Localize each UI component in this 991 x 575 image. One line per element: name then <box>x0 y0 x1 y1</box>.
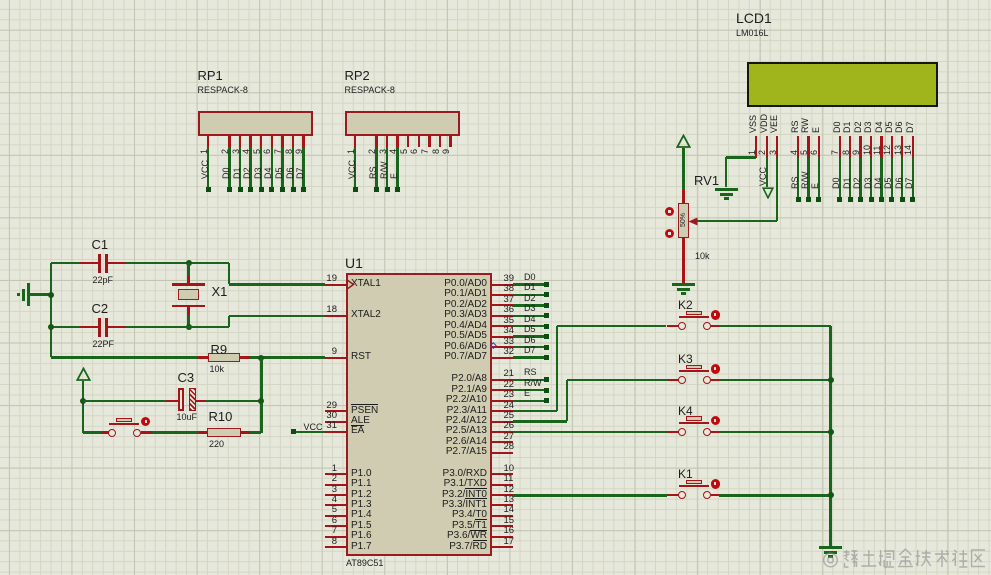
C3 right lead <box>196 400 206 402</box>
C2 left lead <box>80 326 98 328</box>
RP2 pin 9 stub <box>449 136 451 147</box>
R9 right lead <box>240 356 250 358</box>
wire RP1 pin 7 to terminal <box>281 147 283 187</box>
RP1 pin 2 stub <box>228 136 230 147</box>
wire left rail to C1 <box>51 262 80 264</box>
terminal E (U1 side) <box>544 398 549 403</box>
RP1 pin 6 stub <box>271 136 273 147</box>
LCD1 pin name D4 <box>874 121 884 133</box>
LCD1 pin number 4 <box>789 150 799 155</box>
junction left rail / ground <box>48 292 54 298</box>
net label D0 <box>221 167 231 179</box>
RV1 decrease button <box>665 229 674 238</box>
U1 pin 9 (RST) <box>325 357 346 359</box>
wire R9 to RST pin <box>250 356 325 358</box>
R10 left lead <box>198 431 207 433</box>
terminal D0 (RP1 pin 2) <box>227 187 232 192</box>
wire LCD1 D7 to terminal <box>912 158 914 198</box>
LCD1 pin 2 stub <box>766 136 768 158</box>
LCD1 pin 1 stub <box>755 136 757 158</box>
K4 red actuator dot <box>711 416 721 426</box>
junction VCC rail / C3 <box>80 398 86 404</box>
wire X1 bottom to junction <box>187 315 189 327</box>
U1 pin 29 (PSEN) <box>325 410 346 412</box>
terminal D6 (U1 side) <box>544 345 549 350</box>
LCD1 pin number 6 <box>809 150 819 155</box>
terminal D5 (U1 side) <box>544 334 549 339</box>
RV1 top pin stub <box>682 190 684 203</box>
wire K3 right to trunk <box>719 379 831 381</box>
wire P2.1 to terminal R/W <box>513 389 544 391</box>
net label D4 <box>263 167 273 179</box>
wire P2.3 out <box>513 410 557 412</box>
U1 pin 35 (P0.4) <box>492 325 513 327</box>
net label D2 (U1 side) <box>524 294 536 303</box>
label K3 <box>678 353 693 365</box>
terminal D7 (U1 side) <box>544 355 549 360</box>
RP1 pin number 3 <box>231 149 241 154</box>
LCD1 pin number 5 <box>799 150 809 155</box>
wire R10 to reset rail <box>250 431 261 433</box>
U1 pin 4 (P1.3) <box>325 504 346 506</box>
LCD1 pin 12 stub <box>891 136 893 158</box>
LCD1 pin name D0 <box>832 121 842 133</box>
X1 top lead <box>187 276 189 284</box>
wire RP2 pin 1 to terminal <box>354 147 356 187</box>
wire P2.0 to terminal RS <box>513 379 544 381</box>
net label D1 <box>232 167 242 179</box>
wire C2 to XTAL2 corner <box>126 326 229 328</box>
LCD1 pin name D1 <box>842 121 852 133</box>
wire to left ground <box>30 293 51 295</box>
U1 pin 19 (XTAL1) <box>325 284 346 286</box>
junction C1/X1 top <box>186 260 192 266</box>
terminal VCC (EA) <box>291 429 296 434</box>
U1 pin 26 (P2.5) <box>492 431 513 433</box>
wire P0.1 to terminal D1 <box>513 294 544 296</box>
value 22PF (C2) <box>93 340 115 349</box>
LCD1 pin 5 stub <box>807 136 809 158</box>
LCD1 pin number 14 <box>903 145 913 155</box>
LCD1 pin name D3 <box>863 121 873 133</box>
U1 pin 14 (P3.4) <box>492 515 513 517</box>
RP2 pin number 1 <box>346 149 356 154</box>
LCD1 pin 10 stub <box>870 136 872 158</box>
RP2 pin 4 stub <box>396 136 398 147</box>
value RESPACK-8 (RP2) <box>345 86 395 95</box>
wire RP1 pin 4 to terminal <box>249 147 251 187</box>
label X1 <box>212 285 228 298</box>
wire VSS to ground <box>726 156 756 158</box>
net label RS (LCD1) <box>790 176 800 189</box>
wire corner down to XTAL1 <box>228 263 230 284</box>
LCD1 pin number 8 <box>841 150 851 155</box>
terminal R/W (LCD1) <box>806 197 811 202</box>
wire P0.3 to terminal D3 <box>513 315 544 317</box>
RP1 pin 4 stub <box>249 136 251 147</box>
U1 pin 23 (P2.2) <box>492 400 513 402</box>
label RP1 <box>198 69 223 82</box>
wire VCC rail to C3 <box>83 400 166 402</box>
net label D7 (U1 side) <box>524 346 536 355</box>
C1 left lead <box>80 262 98 264</box>
value 10k (R9) <box>210 365 225 374</box>
RP2 pin number 9 <box>441 149 451 154</box>
C2 right lead <box>108 326 126 328</box>
RP2 pin 6 stub <box>418 136 420 147</box>
microcontroller U1 AT89C51 <box>346 273 492 556</box>
net label VCC (RP2) <box>347 160 357 179</box>
U1 pin 39 (P0.0) <box>492 284 513 286</box>
wire to XTAL1 pin <box>229 283 325 285</box>
wire VCC arrow down to RV1 <box>682 148 684 191</box>
LCD1 pin number 11 <box>872 146 882 155</box>
U1 pin 1 (P1.0) <box>325 473 346 475</box>
RP2 pin 1 stub <box>354 136 356 147</box>
wire P0.6 to terminal D6 <box>513 346 544 348</box>
wire to K2 left <box>557 325 666 327</box>
U1 pin 12 (P3.2) <box>492 494 513 496</box>
U1 pin 36 (P0.3) <box>492 315 513 317</box>
LCD1 screen <box>747 62 938 108</box>
LCD1 pin name RW <box>800 118 810 133</box>
LCD1 pin name VDD <box>759 113 769 132</box>
R10 right lead <box>241 431 251 433</box>
net label R/W (LCD1) <box>800 172 810 190</box>
U1 pin 5 (P1.4) <box>325 515 346 517</box>
label R10 <box>209 410 233 423</box>
LCD1 pin name D2 <box>853 121 863 133</box>
value 10uF (C3) <box>177 413 198 422</box>
wire VCC rail to button <box>83 431 101 433</box>
terminal D3 (LCD1) <box>869 197 874 202</box>
C1 right lead <box>108 262 126 264</box>
RP1 pin number 9 <box>294 149 304 154</box>
net label D7 (LCD1) <box>904 177 914 189</box>
LCD1 pin 4 stub <box>797 136 799 158</box>
RP1 pin 8 stub <box>292 136 294 147</box>
LCD1 pin number 12 <box>882 145 892 155</box>
wire RP2 pin 4 to terminal <box>396 147 398 187</box>
wire C1 to XTAL1 corner <box>126 262 229 264</box>
terminal D1 (U1 side) <box>544 292 549 297</box>
wire VEE to RV1 wiper <box>697 220 777 222</box>
RV1 wiper percent 50% <box>680 213 688 227</box>
wire LCD1 E to terminal <box>818 158 820 198</box>
net label E (U1 side) <box>524 389 530 398</box>
label K4 <box>678 405 693 417</box>
U1 pin 17 (P3.7) <box>492 546 513 548</box>
ground (RV1 bottom) <box>672 283 695 286</box>
terminal D5 (RP1 pin 7) <box>280 187 285 192</box>
wire RP1 pin 8 to terminal <box>292 147 294 187</box>
net label D1 (LCD1) <box>842 177 852 189</box>
resistor pack RP1 <box>198 111 313 136</box>
LCD1 pin 8 stub <box>849 136 851 158</box>
wire button to R10 <box>152 431 198 433</box>
RP1 pin 5 stub <box>260 136 262 147</box>
RP1 pin 9 stub <box>302 136 304 147</box>
wire P2.2 to terminal E <box>513 400 544 402</box>
junction trunk/K1 <box>828 492 834 498</box>
wire to XTAL2 pin <box>229 315 325 317</box>
terminal D7 (RP1 pin 9) <box>301 187 306 192</box>
wire down to ground (VSS) <box>725 157 727 187</box>
U1 pin 10 (P3.0) <box>492 473 513 475</box>
wire LCD1 D2 to terminal <box>859 158 861 198</box>
wire K1 right to trunk <box>719 494 831 496</box>
net label D0 (U1 side) <box>524 273 536 282</box>
RP2 pin 8 stub <box>439 136 441 147</box>
U1 pin 22 (P2.1) <box>492 389 513 391</box>
RP1 pin number 8 <box>284 149 294 154</box>
net label E (LCD1) <box>810 183 820 189</box>
net label R/W (RP2) <box>379 162 389 180</box>
terminal D4 (U1 side) <box>544 324 549 329</box>
wire P2.4 out <box>513 420 567 422</box>
value 10k (RV1) <box>695 252 710 261</box>
value 22pF (C1) <box>93 276 114 285</box>
value 220 (R10) <box>209 440 224 449</box>
net label D2 <box>242 167 252 179</box>
wire P0.5 to terminal D5 <box>513 335 544 337</box>
LCD1 pin number 1 <box>747 150 757 155</box>
RP2 pin 5 stub <box>407 136 409 147</box>
label C3 <box>178 371 195 384</box>
U1 pin 8 (P1.7) <box>325 546 346 548</box>
LCD1 pin 7 stub <box>839 136 841 158</box>
net label VCC <box>200 160 210 179</box>
label LCD1 <box>736 11 772 25</box>
LCD1 pin number 3 <box>768 150 778 155</box>
net label E (RP2) <box>389 173 399 179</box>
RV1 bottom pin wire <box>682 238 684 283</box>
junction left rail / C2 <box>48 324 54 330</box>
RP2 pin number 7 <box>420 149 430 154</box>
terminal D2 (RP1 pin 4) <box>248 187 253 192</box>
watermark @ xitu juejin tech community <box>823 548 987 570</box>
label K2 <box>678 299 693 311</box>
wire VCC terminal to EA <box>296 431 326 433</box>
wire LCD1 RS to terminal <box>797 158 799 198</box>
label VCC (VDD arrow) <box>758 167 768 186</box>
RV1 wiper arrow <box>688 217 698 226</box>
U1 pin 38 (P0.1) <box>492 294 513 296</box>
LCD1 pin number 13 <box>893 145 903 155</box>
terminal RS (LCD1) <box>796 197 801 202</box>
wire left rail vertical <box>50 263 52 357</box>
U1 pin 21 (P2.0) <box>492 379 513 381</box>
net label RS (U1 side) <box>524 368 537 377</box>
U1 pin 11 (P3.1) <box>492 484 513 486</box>
net label D2 (LCD1) <box>852 177 862 189</box>
RP2 pin number 5 <box>399 149 409 154</box>
RP2 pin number 6 <box>409 149 419 154</box>
wire left rail to C2 <box>51 326 80 328</box>
U1 pin 15 (P3.5) <box>492 525 513 527</box>
LCD1 pin name VSS <box>748 114 758 132</box>
wire junction to X1 top <box>187 263 189 276</box>
junction trunk/K3 <box>828 377 834 383</box>
U1 pin 18 (XTAL2) <box>325 315 346 317</box>
LCD1 pin name VEE <box>769 114 779 132</box>
net label D6 (U1 side) <box>524 336 536 345</box>
U1 XTAL1 clock chevron <box>346 279 355 290</box>
RP2 pin number 2 <box>367 149 377 154</box>
K1 red actuator dot <box>711 479 721 489</box>
U1 pin 27 (P2.6) <box>492 441 513 443</box>
terminal D0 (LCD1) <box>837 197 842 202</box>
LCD1 pin 3 stub <box>776 136 778 158</box>
terminal D1 (RP1 pin 3) <box>238 187 243 192</box>
wire P2.5 to K4 <box>513 431 667 433</box>
wire P0.4 to terminal D4 <box>513 325 544 327</box>
net label D5 <box>274 167 284 179</box>
U1 pin 28 (P2.7) <box>492 452 513 454</box>
terminal RS (U1 side) <box>544 377 549 382</box>
terminal VCC (RP1 pin 1) <box>206 187 211 192</box>
wire vertical P2.3 to K2 row <box>556 326 558 411</box>
net label R/W (U1 side) <box>524 379 542 388</box>
net label D4 (U1 side) <box>524 315 536 324</box>
LCD1 pin name E <box>811 126 821 132</box>
wire P0.2 to terminal D2 <box>513 304 544 306</box>
U1 pin 7 (P1.6) <box>325 536 346 538</box>
label R9 <box>211 343 228 356</box>
net label D4 (LCD1) <box>873 177 883 189</box>
U1 pin 3 (P1.2) <box>325 494 346 496</box>
U1 pin 31 (EA) <box>325 431 346 433</box>
wire LCD1 D0 to terminal <box>839 158 841 198</box>
wire RP1 pin 2 to terminal <box>228 147 230 187</box>
K3 red actuator dot <box>711 364 721 374</box>
net label D7 <box>295 167 305 179</box>
wire corner up to XTAL2 <box>228 316 230 327</box>
wire keys common trunk <box>829 326 831 546</box>
wire RP2 pin 3 to terminal <box>386 147 388 187</box>
wire right reset rail vertical <box>260 358 262 433</box>
RP1 pin number 5 <box>252 149 262 154</box>
terminal D4 (RP1 pin 6) <box>269 187 274 192</box>
power VCC (up arrow above RV1) <box>676 134 691 149</box>
terminal D0 (U1 side) <box>544 282 549 287</box>
net label D5 (LCD1) <box>883 177 893 189</box>
junction C2/X1 bottom <box>186 324 192 330</box>
wire RP1 pin 6 to terminal <box>271 147 273 187</box>
wire vertical P2.4 to K3 row <box>566 380 568 421</box>
wire VCC arrow down rail <box>82 381 84 433</box>
value RESPACK-8 <box>198 86 248 95</box>
U1 pin 37 (P0.2) <box>492 304 513 306</box>
LCD1 pin 6 stub <box>818 136 820 158</box>
wire K4 right to trunk <box>719 431 831 433</box>
label RV1 <box>694 174 719 187</box>
button red actuator dot <box>141 417 151 427</box>
terminal D6 (RP1 pin 8) <box>291 187 296 192</box>
K2 red actuator dot <box>711 310 721 320</box>
RP1 pin 1 stub <box>207 136 209 147</box>
wire RP1 pin 5 to terminal <box>260 147 262 187</box>
net label D3 (U1 side) <box>524 304 536 313</box>
label K1 <box>678 468 693 480</box>
LCD1 pin number 9 <box>851 150 861 155</box>
wire P3.2 to K1 <box>513 494 667 496</box>
ground (keys trunk) <box>819 546 842 549</box>
net label D6 (LCD1) <box>894 177 904 189</box>
R9 left lead <box>198 356 208 358</box>
U1 pin 6 (P1.5) <box>325 525 346 527</box>
net label D1 (U1 side) <box>524 283 536 292</box>
RP2 pin 7 stub <box>428 136 430 147</box>
label RP2 <box>345 69 370 82</box>
RP1 pin number 4 <box>241 149 251 154</box>
RP2 pin 3 stub <box>386 136 388 147</box>
net label D3 <box>253 167 263 179</box>
wire LCD1 D4 to terminal <box>880 158 882 198</box>
X1 bottom lead <box>187 306 189 315</box>
net label D3 (LCD1) <box>863 177 873 189</box>
wire C3 to reset rail <box>206 400 261 402</box>
terminal D5 (LCD1) <box>889 197 894 202</box>
U1 pin 13 (P3.3) <box>492 504 513 506</box>
wire VEE down <box>776 158 778 222</box>
terminal D2 (LCD1) <box>858 197 863 202</box>
C3 left lead <box>166 400 178 402</box>
junction R9/RST/C3 rail <box>258 355 264 361</box>
net label VCC (EA) <box>304 423 323 432</box>
net label D0 (LCD1) <box>831 177 841 189</box>
terminal D2 (U1 side) <box>544 303 549 308</box>
power VCC (up arrow, reset circuit) <box>76 367 91 382</box>
resistor pack RP2 <box>345 111 460 136</box>
net label D6 <box>285 167 295 179</box>
junction trunk/K4 <box>828 429 834 435</box>
RP1 pin number 1 <box>199 149 209 154</box>
terminal D4 (LCD1) <box>879 197 884 202</box>
wire VDD to VCC arrow <box>766 158 768 188</box>
LCD1 pin name D6 <box>894 121 904 133</box>
RV1 increase button <box>665 207 674 216</box>
terminal R/W (U1 side) <box>544 388 549 393</box>
button left lead <box>101 431 109 433</box>
label C1 <box>92 238 109 251</box>
LCD1 pin number 7 <box>830 150 840 155</box>
LCD1 pin 9 stub <box>859 136 861 158</box>
wire RP2 pin 2 to terminal <box>375 147 377 187</box>
terminal D6 (LCD1) <box>900 197 905 202</box>
ground (VSS) <box>715 188 738 191</box>
LCD1 pin number 2 <box>757 150 767 155</box>
U1 pin 2 (P1.1) <box>325 484 346 486</box>
power VCC (down arrow at VDD) <box>762 187 774 199</box>
LCD1 pin number 10 <box>862 145 872 155</box>
button right lead <box>141 431 152 433</box>
terminal E (RP2 pin 4) <box>395 187 400 192</box>
wire left rail to R9 <box>51 356 198 358</box>
RP2 pin 2 stub <box>375 136 377 147</box>
RP1 pin number 7 <box>273 149 283 154</box>
wire RP1 pin 3 to terminal <box>239 147 241 187</box>
terminal VCC (RP2 pin 1) <box>353 187 358 192</box>
terminal D1 (LCD1) <box>848 197 853 202</box>
terminal D3 (RP1 pin 5) <box>259 187 264 192</box>
value AT89C51 <box>346 559 383 568</box>
U1 pin 25 (P2.4) <box>492 421 513 423</box>
ground (left, rotated) <box>27 283 30 306</box>
wire LCD1 D3 to terminal <box>870 158 872 198</box>
wire K2 right to trunk <box>719 325 831 327</box>
wire LCD1 D6 to terminal <box>901 158 903 198</box>
